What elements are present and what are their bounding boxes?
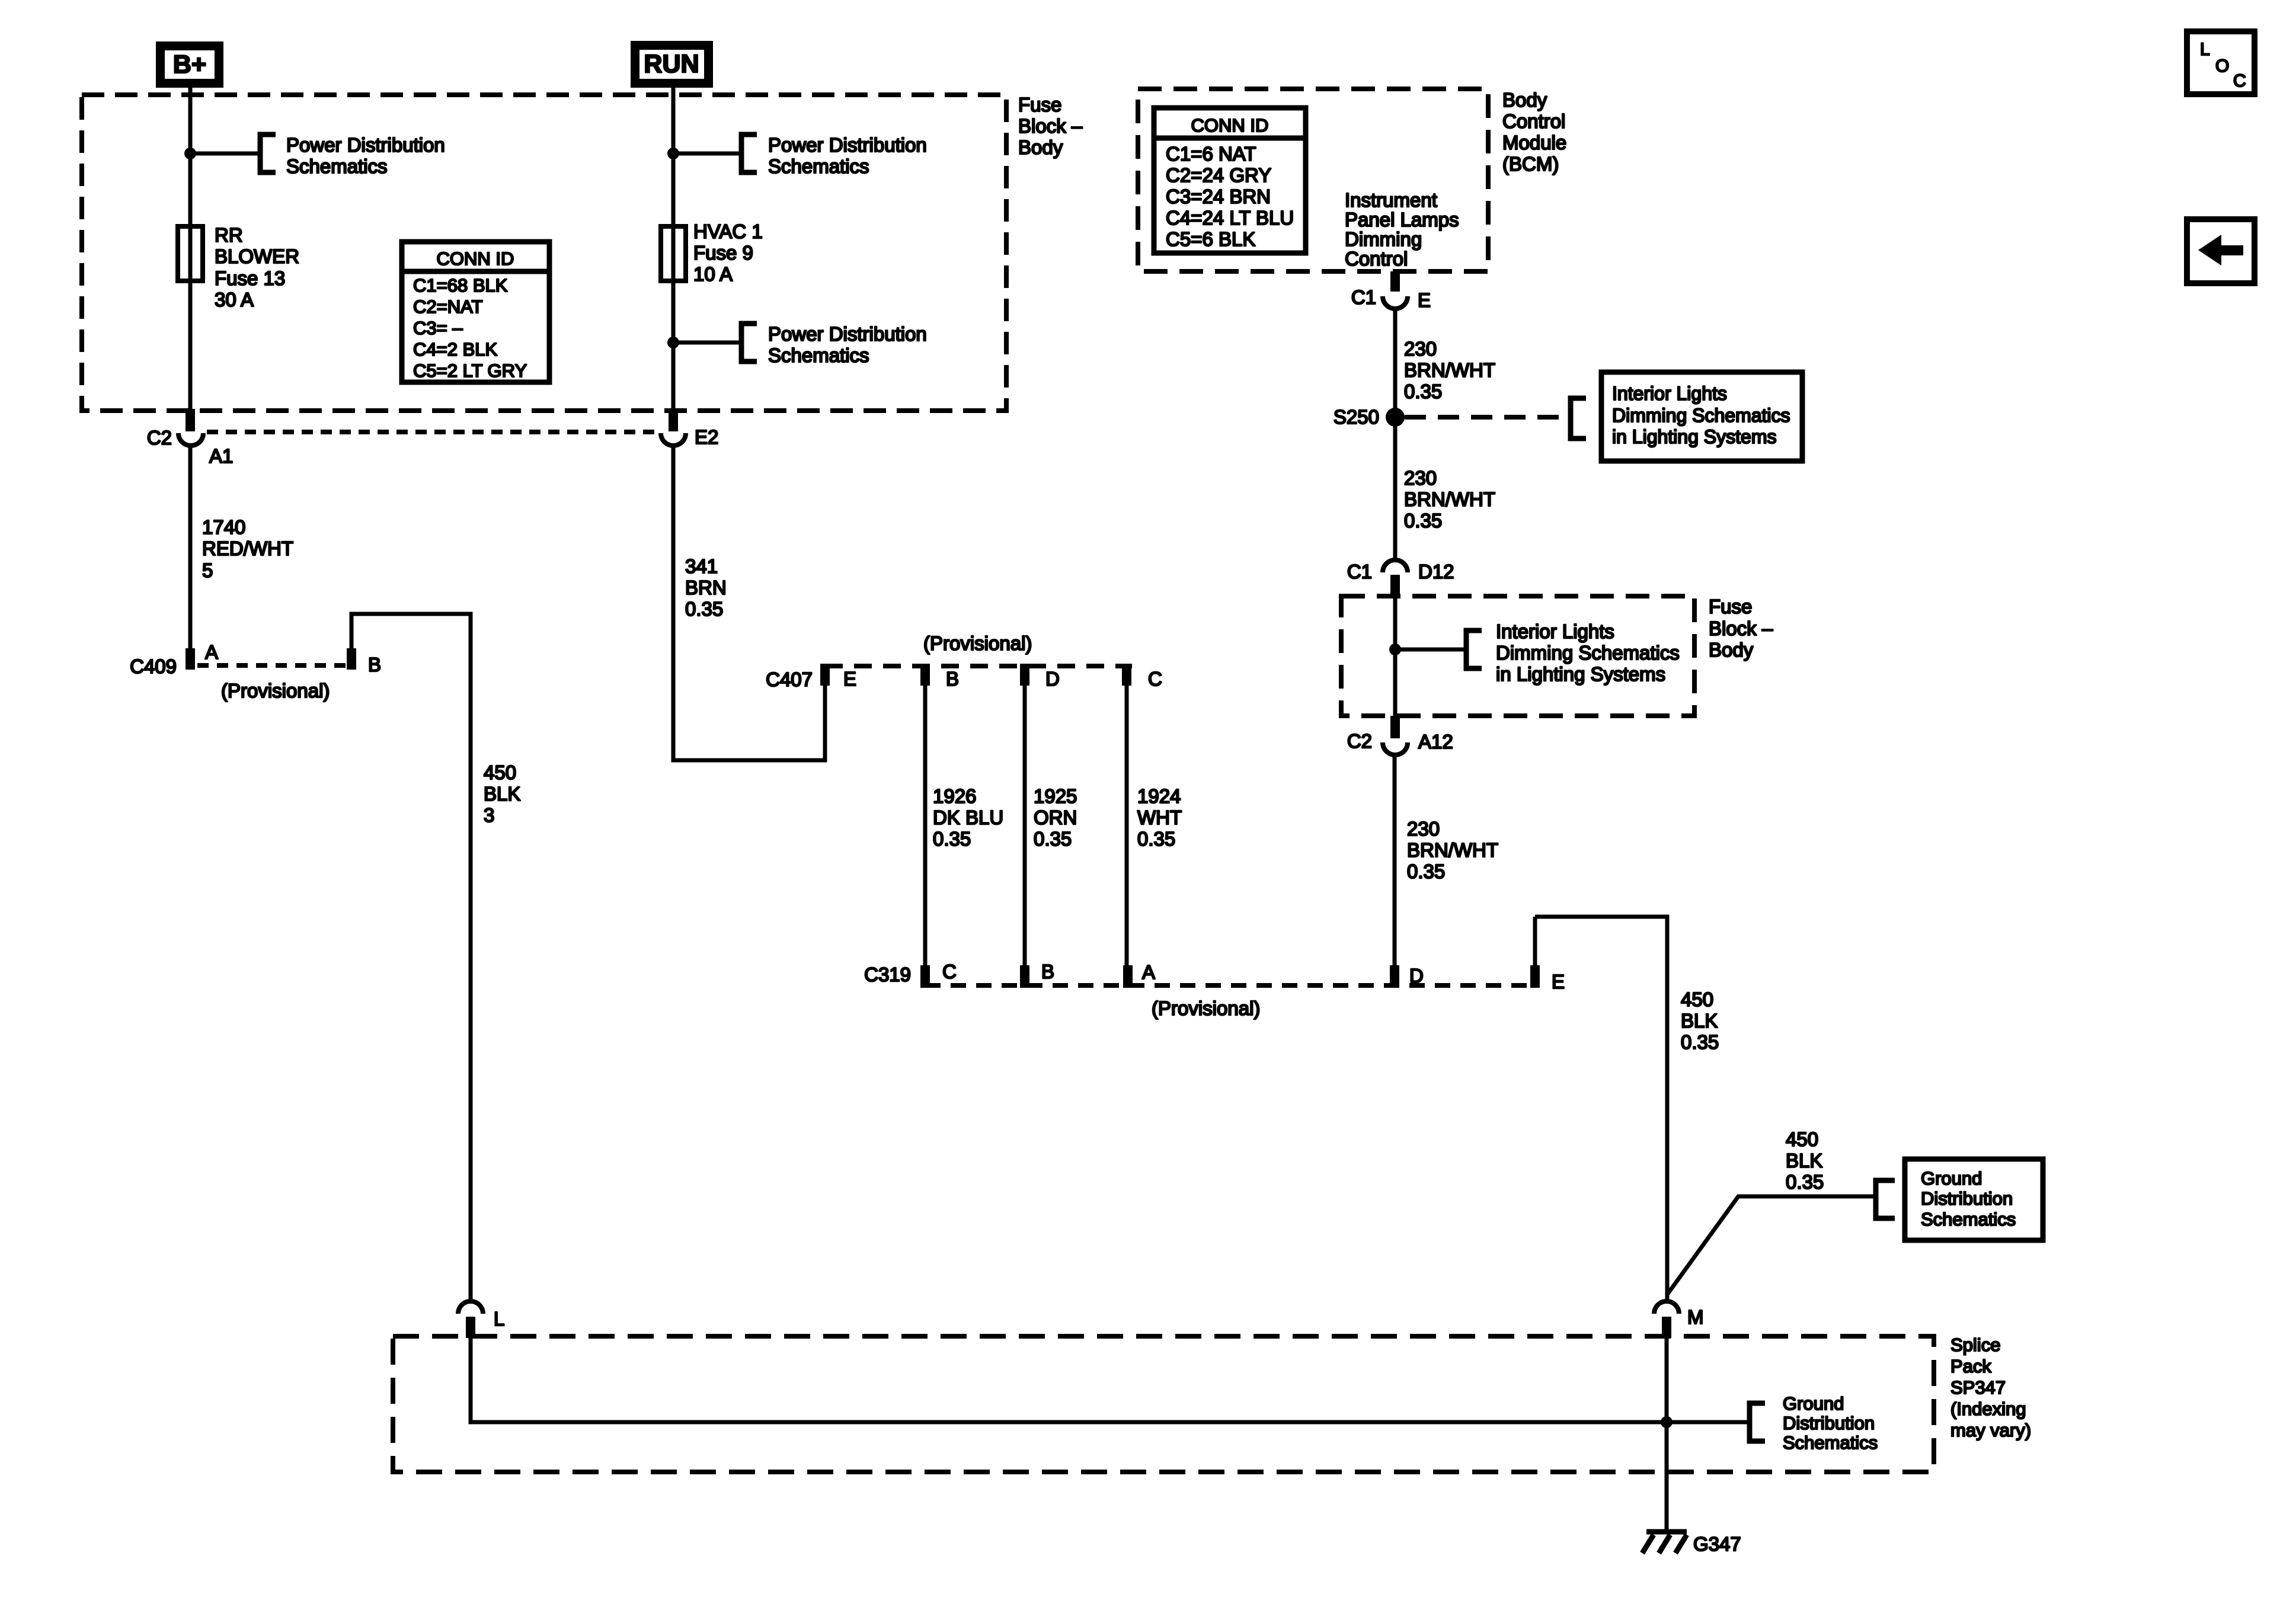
svg-text:Ground: Ground [1921,1168,1982,1189]
svg-text:Panel Lamps: Panel Lamps [1345,209,1459,231]
splice pack SP347 dashed box [393,1336,1934,1472]
svg-text:0.35: 0.35 [685,598,723,620]
wire 230 BRN/WHT from C1 E to S250 and on to C1 D12 [1393,309,1398,560]
svg-text:3: 3 [484,804,494,826]
svg-text:450: 450 [1681,988,1713,1010]
label wire 450 BLK 0.35 second [1786,1128,1824,1193]
svg-text:D: D [1409,965,1424,987]
wire inside splice pack from L to junction [471,1338,1750,1422]
off-page bracket ground distribution 1 [1876,1180,1895,1218]
svg-text:C2=24 GRY: C2=24 GRY [1166,164,1271,186]
label power distribution schematics 1 [286,134,445,177]
svg-text:Module: Module [1502,132,1566,153]
svg-text:WHT: WHT [1137,806,1182,828]
connector C407 pin B [920,664,930,686]
label wire 1926 DK BLU 0.35 [933,785,1003,850]
fuse F13 RR BLOWER body [178,226,203,281]
svg-text:(BCM): (BCM) [1502,153,1559,175]
svg-text:HVAC 1: HVAC 1 [693,220,763,242]
svg-text:230: 230 [1404,338,1437,360]
svg-text:Pack: Pack [1950,1356,1991,1377]
svg-text:C: C [942,961,957,982]
connector C1 pin E bottom of BCM [1390,271,1400,292]
connector C2 pin A12 [1390,716,1400,738]
svg-text:E: E [1552,971,1565,993]
wire B+ vertical [188,88,193,410]
svg-text:BLOWER: BLOWER [215,245,299,267]
svg-text:Body: Body [1502,89,1547,111]
svg-text:C2: C2 [1347,730,1372,752]
label ground distribution schematics 2 [1783,1393,1878,1453]
svg-text:C1=68 BLK: C1=68 BLK [413,275,508,296]
splice S250 [1386,408,1405,427]
label wire 341 BRN 0.35 [685,555,727,620]
node junction on B+ wire [184,148,196,159]
arrow legend box [2187,219,2255,283]
svg-text:C5=2 LT GRY: C5=2 LT GRY [413,360,527,381]
connector C1 arc at E [1383,296,1408,309]
svg-text:230: 230 [1404,467,1437,489]
svg-text:SP347: SP347 [1950,1377,2006,1398]
label wire 450 BLK 0.35 first [1681,988,1719,1053]
svg-text:230: 230 [1407,818,1440,840]
svg-text:C: C [1148,668,1162,690]
wire through fuse block FB2 [1393,598,1398,738]
node junction SP347 [1661,1416,1673,1428]
svg-text:BLK: BLK [1786,1150,1822,1172]
svg-text:0.35: 0.35 [1137,828,1175,850]
wire branch to power distribution bracket 2 [673,152,741,156]
terminal box RUN [635,46,709,84]
svg-text:RR: RR [215,224,243,246]
wire diagonal from M to ground distribution reference [1667,1196,1875,1295]
svg-text:(Indexing: (Indexing [1950,1398,2026,1419]
svg-text:L: L [2200,40,2210,59]
svg-text:Control: Control [1502,110,1565,132]
svg-text:Schematics: Schematics [1783,1432,1878,1453]
svg-text:C2=NAT: C2=NAT [413,296,482,317]
label fuse F13 [215,224,299,311]
svg-text:(Provisional): (Provisional) [923,632,1032,654]
wire M down to ground [1665,1338,1669,1531]
connector M arc dome [1654,1301,1679,1314]
label power distribution schematics 3 [768,323,927,366]
svg-text:C3= –: C3= – [413,318,463,338]
connector C407 pin D [1020,664,1029,686]
LOC legend box [2187,31,2255,94]
in-line dotted line C409 A to B [197,663,346,668]
svg-text:C: C [2233,71,2246,91]
svg-text:Fuse: Fuse [1709,596,1752,617]
svg-text:Power Distribution: Power Distribution [768,323,927,345]
off-page bracket power distribution 1 [260,135,276,172]
label splice pack SP347 [1950,1334,2031,1441]
connector C319 pin A [1123,965,1133,988]
svg-text:Control: Control [1345,248,1408,270]
connector C2 arc at A1 [178,433,203,446]
svg-text:BLK: BLK [1681,1010,1718,1032]
svg-text:0.35: 0.35 [1407,860,1445,882]
label Fuse Block Body FB1 [1018,94,1083,158]
svg-text:B+: B+ [173,50,206,79]
fuse F9 HVAC1 body [661,226,686,281]
svg-text:BRN/WHT: BRN/WHT [1404,488,1495,510]
svg-text:0.35: 0.35 [933,828,971,850]
svg-text:B: B [368,654,381,676]
fuse block body dashed box FB1 [82,95,1006,411]
node junction RUN lower [667,337,679,348]
svg-text:5: 5 [202,559,213,581]
connector L pin [466,1317,475,1338]
svg-text:E: E [1418,289,1431,311]
connector C1 pin D12 [1390,575,1400,598]
connector C409 pin B [347,648,356,670]
svg-text:BRN: BRN [685,577,727,598]
connector L arc dome [458,1301,483,1314]
off-page bracket power distribution 2 [741,135,757,172]
connector C319 dotted line [925,983,1540,988]
svg-text:1926: 1926 [933,785,976,807]
wire 1740 RED/WHT vertical [188,446,193,649]
connector C319 pin D [1390,965,1399,988]
svg-text:BLK: BLK [484,783,520,805]
svg-text:Interior Lights: Interior Lights [1496,620,1614,642]
label wire 1925 ORN 0.35 [1034,785,1077,850]
label Body Control Module BCM [1502,89,1566,175]
connector C407 dotted line [825,664,1132,668]
svg-text:RUN: RUN [644,50,699,78]
svg-text:B: B [946,668,959,690]
reference box ground distribution schematics 1 [1905,1159,2043,1240]
in-line harness dotted line C2 to E2 [207,430,659,434]
svg-text:in Lighting Systems: in Lighting Systems [1496,663,1665,685]
off-page bracket interior lights dimming 2 [1466,630,1482,668]
connector C407 pin E [820,664,830,686]
label wire 1924 WHT 0.35 [1137,785,1182,850]
label wire 1740 RED/WHT 5 [202,516,293,581]
svg-text:341: 341 [685,555,718,577]
svg-text:C1=6 NAT: C1=6 NAT [1166,143,1256,165]
svg-text:Fuse: Fuse [1018,94,1061,116]
svg-text:Distribution: Distribution [1921,1188,2013,1209]
connector M pin [1662,1317,1671,1338]
svg-text:C1: C1 [1351,286,1376,308]
svg-text:(Provisional): (Provisional) [221,680,330,702]
svg-text:Ground: Ground [1783,1393,1844,1414]
svg-text:Interior Lights: Interior Lights [1612,383,1727,404]
svg-text:1924: 1924 [1137,785,1181,807]
svg-text:ORN: ORN [1034,806,1077,828]
svg-text:Dimming Schematics: Dimming Schematics [1496,642,1680,664]
reference box interior lights dimming schematics 1 [1601,372,1802,461]
svg-text:Power Distribution: Power Distribution [768,134,927,156]
svg-text:BRN/WHT: BRN/WHT [1407,839,1498,861]
connector C2 pin A1 top pin [186,409,195,431]
wire RUN vertical [671,88,676,410]
connector C407 pin C [1122,664,1131,686]
svg-text:Fuse 9: Fuse 9 [693,242,753,264]
svg-text:Schematics: Schematics [768,344,869,366]
svg-text:E2: E2 [695,426,718,448]
svg-text:BRN/WHT: BRN/WHT [1404,359,1495,381]
svg-text:Schematics: Schematics [768,155,869,177]
connector C2 arc at A12 [1383,742,1408,755]
label fuse F9 HVAC 1 [693,220,763,285]
label wire 230 BRN/WHT 0.35 third [1407,818,1498,882]
label power distribution schematics 2 [768,134,927,177]
wire 341 BRN vertical below E2 [673,446,825,760]
svg-text:Power Distribution: Power Distribution [286,134,445,156]
svg-text:10 A: 10 A [693,263,733,285]
svg-text:A1: A1 [209,445,233,467]
svg-text:S250: S250 [1334,406,1379,428]
svg-text:M: M [1687,1306,1704,1328]
connector id table CONN ID 1 [402,242,549,382]
svg-text:450: 450 [484,761,516,783]
label wire 230 BRN/WHT 0.35 second [1404,467,1495,532]
label instrument panel lamps dimming control [1345,189,1459,270]
wire 450 BLK 3 from pin B up over and down [351,614,471,1304]
wire 1924 WHT vertical [1125,686,1129,965]
svg-text:A12: A12 [1418,731,1453,753]
svg-text:RED/WHT: RED/WHT [202,537,293,559]
svg-text:Instrument: Instrument [1345,189,1437,211]
svg-text:Body: Body [1018,136,1063,158]
svg-text:O: O [2215,56,2229,76]
svg-text:may vary): may vary) [1950,1420,2031,1441]
connector arc at E2 [661,433,686,446]
svg-text:CONN ID: CONN ID [437,248,514,269]
wire branch to interior lights bracket 2 [1395,648,1466,652]
wire branch to power distribution bracket 3 [673,341,741,345]
svg-text:C409: C409 [130,655,177,677]
terminal box B+ [161,46,219,84]
svg-text:A: A [1142,961,1155,983]
connector C319 pin E [1530,965,1540,988]
svg-text:CONN ID: CONN ID [1191,115,1269,136]
svg-text:A: A [205,641,218,663]
svg-text:C4=24 LT BLU: C4=24 LT BLU [1166,207,1294,229]
ground symbol G347 [1642,1532,1687,1553]
svg-text:Fuse 13: Fuse 13 [215,267,285,289]
svg-text:C4=2 BLK: C4=2 BLK [413,339,498,360]
connector C1 arc at D12 dome [1383,560,1408,572]
wire 1926 DK BLU vertical [923,686,928,965]
wire 1925 ORN vertical [1023,686,1027,965]
svg-text:Schematics: Schematics [1921,1209,2016,1230]
svg-text:C407: C407 [766,668,813,690]
svg-text:450: 450 [1786,1128,1818,1150]
svg-text:in Lighting Systems: in Lighting Systems [1612,426,1776,447]
svg-text:E: E [843,668,856,690]
svg-text:D12: D12 [1418,561,1454,582]
label wire 230 BRN/WHT 0.35 first [1404,338,1495,402]
svg-text:G347: G347 [1693,1533,1741,1555]
connector pin E2 top pin [669,409,678,431]
svg-text:0.35: 0.35 [1404,380,1442,402]
off-page bracket power distribution 3 [741,324,757,361]
svg-text:0.35: 0.35 [1404,510,1442,532]
svg-text:D: D [1045,668,1060,690]
off-page bracket ground distribution 2 [1750,1403,1765,1441]
svg-text:30 A: 30 A [215,289,254,311]
connector C409 pin A [186,648,195,670]
connector C319 pin C [920,965,930,988]
svg-text:Splice: Splice [1950,1334,2000,1355]
svg-text:1925: 1925 [1034,785,1077,807]
node junction RUN upper [667,148,679,159]
svg-text:Body: Body [1709,639,1754,661]
label Fuse Block Body FB2 [1709,596,1773,661]
svg-text:C3=24 BRN: C3=24 BRN [1166,185,1271,207]
wire 230 BRN/WHT from A12 down to pin D [1393,755,1397,965]
svg-text:1740: 1740 [202,516,245,538]
fuse block body dashed box FB2 [1341,596,1694,716]
svg-text:Block –: Block – [1018,115,1083,137]
svg-text:Distribution: Distribution [1783,1413,1875,1433]
body control module dashed box BCM [1138,89,1488,271]
svg-text:(Provisional): (Provisional) [1152,997,1260,1019]
wire 450 BLK 0.35 from pin E up over and down to M [1535,917,1667,1304]
connector C319 pin B [1020,965,1029,988]
svg-text:C319: C319 [864,964,911,985]
svg-text:Block –: Block – [1709,617,1773,639]
label wire 450 BLK 3 [484,761,520,826]
connector id table CONN ID 2 [1154,108,1306,253]
svg-text:Schematics: Schematics [286,155,388,177]
svg-text:Dimming Schematics: Dimming Schematics [1612,405,1790,426]
svg-text:L: L [494,1308,504,1330]
svg-text:C5=6 BLK: C5=6 BLK [1166,228,1255,250]
svg-text:Dimming: Dimming [1345,228,1422,250]
svg-text:B: B [1041,961,1054,982]
label interior lights dimming schematics 2 [1496,620,1680,685]
svg-text:0.35: 0.35 [1681,1031,1719,1053]
svg-text:0.35: 0.35 [1786,1171,1824,1193]
off-page bracket interior lights dimming 1 [1571,398,1586,438]
svg-text:C1: C1 [1347,561,1372,582]
svg-text:0.35: 0.35 [1034,828,1072,850]
dashed wire from S250 to interior lights bracket [1405,415,1568,420]
svg-text:C2: C2 [147,427,172,449]
node junction in FB2 [1389,644,1401,655]
wire branch to power distribution bracket [190,152,260,156]
svg-text:DK BLU: DK BLU [933,806,1003,828]
